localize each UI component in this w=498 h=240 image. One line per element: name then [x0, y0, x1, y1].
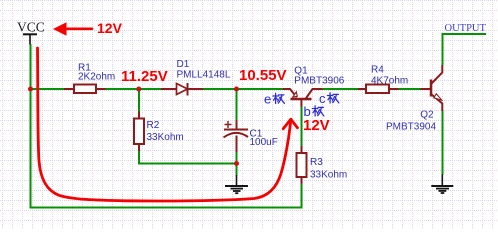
svg-text:11.25V: 11.25V [121, 68, 168, 85]
svg-text:33Kohm: 33Kohm [310, 170, 347, 181]
svg-text:100uF: 100uF [250, 137, 278, 148]
svg-text:D1: D1 [177, 59, 190, 70]
svg-text:PMLL4148L: PMLL4148L [177, 69, 231, 80]
svg-text:R2: R2 [147, 120, 160, 131]
svg-text:R4: R4 [371, 65, 384, 76]
svg-text:b: b [304, 104, 311, 119]
svg-text:10.55V: 10.55V [239, 67, 287, 84]
svg-text:4K7ohm: 4K7ohm [371, 75, 408, 86]
svg-text:Q2: Q2 [420, 110, 434, 121]
svg-text:PMBT3904: PMBT3904 [386, 121, 436, 132]
svg-text:12V: 12V [97, 20, 123, 36]
svg-text:e: e [264, 92, 271, 107]
svg-text:OUTPUT: OUTPUT [445, 23, 487, 34]
svg-text:12V: 12V [303, 117, 330, 134]
svg-text:PMBT3906: PMBT3906 [294, 75, 344, 86]
svg-text:c: c [319, 91, 326, 106]
svg-text:2K2ohm: 2K2ohm [78, 72, 115, 83]
svg-text:R3: R3 [310, 157, 323, 168]
svg-text:33Kohm: 33Kohm [147, 132, 184, 143]
svg-text:VCC: VCC [17, 20, 45, 35]
